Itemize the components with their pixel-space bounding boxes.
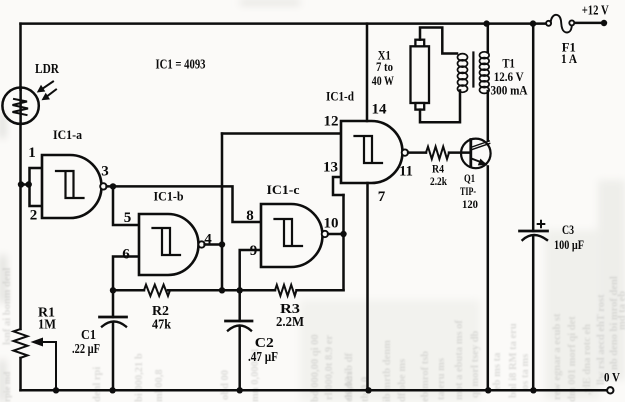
schmitt symbol IC1-d: [355, 136, 383, 163]
bubble IC1-a output: [100, 183, 106, 189]
svg-text:120: 120: [462, 199, 478, 211]
svg-text:3: 3: [101, 164, 109, 180]
wire +12V top rail: [21, 22, 547, 25]
schmitt symbol IC1-b: [153, 228, 181, 255]
svg-text:5: 5: [124, 210, 132, 226]
wire emitter down to rail: [487, 167, 490, 391]
gate IC1-c body: [261, 204, 322, 267]
wire gate-a input connect: [21, 168, 42, 206]
gate IC1-b body: [139, 214, 198, 275]
wire pin6: [113, 257, 139, 291]
wire pin14 to rail: [366, 24, 369, 121]
LDR photoresistor: [2, 88, 38, 125]
schmitt symbol IC1-a: [56, 171, 84, 198]
svg-text:IC1-a: IC1-a: [53, 127, 82, 142]
svg-text:md ta eb: md ta eb: [617, 291, 625, 330]
svg-text:2.2k: 2.2k: [430, 176, 447, 188]
svg-text:C3: C3: [562, 223, 574, 237]
bubble IC1-b output: [198, 241, 204, 247]
svg-text:IC1-b: IC1-b: [154, 189, 184, 204]
wire pin3 output to pin8: [107, 186, 261, 222]
svg-text:7 to: 7 to: [376, 60, 393, 74]
wire pin11 output: [408, 151, 426, 154]
svg-text:4: 4: [204, 232, 212, 248]
svg-text:os ta ms: os ta ms: [520, 354, 531, 390]
wire vertical pin4 to pin12 and feedback: [221, 134, 224, 291]
svg-text:9: 9: [250, 243, 258, 259]
svg-text:eb den: eb den: [344, 372, 355, 402]
wire pin12: [222, 132, 341, 135]
svg-text:ta eru ms: ta eru ms: [436, 358, 447, 400]
potentiometer R1: [14, 329, 28, 358]
gate IC1-d body: [341, 121, 402, 183]
wire pin10 output: [328, 233, 343, 236]
capacitor C3: [520, 24, 548, 391]
svg-text:eb ms ta: eb ms ta: [492, 352, 503, 390]
svg-text:6: 6: [122, 247, 130, 263]
R1 wiper arrow: [31, 338, 57, 391]
wire left rail upper: [19, 24, 22, 90]
wire pin13 jog: [333, 177, 344, 195]
resistor R2: [144, 285, 170, 296]
svg-text:8: 8: [246, 208, 254, 224]
capacitor C2: [226, 290, 253, 390]
svg-text:ml 00,8: ml 00,8: [154, 369, 165, 402]
resistor R3: [275, 285, 297, 296]
resistor R4: [426, 147, 449, 159]
svg-text:1 A: 1 A: [561, 52, 577, 66]
svg-text:C2: C2: [255, 336, 274, 351]
wire pin4 output: [205, 243, 222, 246]
transformer T1 primary coil: [458, 54, 468, 93]
wire T1 secondary top to rail: [487, 24, 490, 53]
svg-text:bnl i8 RM ta eru: bnl i8 RM ta eru: [508, 323, 519, 398]
svg-text:TIP-: TIP-: [460, 186, 476, 198]
svg-text:eb mrof tsb: eb mrof tsb: [420, 351, 431, 402]
svg-text:12: 12: [324, 114, 339, 130]
transistor Q1: [461, 139, 491, 169]
lamp X1: [411, 40, 430, 110]
svg-text:+12 V: +12 V: [582, 4, 609, 19]
svg-text:2.2M: 2.2M: [276, 315, 304, 330]
wire pin9: [240, 250, 261, 290]
wire pin10 to pin13 and R3: [342, 195, 345, 290]
op-amp gate IC1-a body: [42, 155, 102, 218]
wire 0V bottom rail: [21, 389, 608, 392]
transformer T1 secondary coil: [480, 52, 490, 94]
background bleed-through text (decorative): [2, 268, 625, 402]
wire lamp bottom to T1 primary: [420, 91, 460, 123]
wire R4 to base: [449, 151, 470, 154]
svg-text:.22 µF: .22 µF: [72, 342, 100, 357]
svg-text:14: 14: [372, 102, 388, 118]
svg-text:IC1 = 4093: IC1 = 4093: [156, 57, 206, 72]
svg-text:100 µF: 100 µF: [554, 238, 584, 252]
svg-text:df obe ms: df obe ms: [397, 359, 408, 402]
svg-text:ib mrtb denm: ib mrtb denm: [382, 340, 393, 402]
svg-text:IC1-d: IC1-d: [326, 89, 355, 104]
svg-text:2: 2: [30, 208, 38, 224]
wire pin7 to ground: [366, 183, 369, 390]
svg-text:10: 10: [324, 216, 339, 232]
wire top rail right of fuse: [574, 22, 604, 25]
bubble IC1-d output: [402, 149, 408, 155]
svg-text:rew egnar a ecub st: rew egnar a ecub st: [552, 313, 563, 400]
svg-text:rpie md: rpie md: [2, 372, 12, 402]
capacitor C1: [100, 290, 127, 390]
svg-text:bi 000,21 b: bi 000,21 b: [134, 353, 145, 402]
svg-text:denl rpi: denl rpi: [92, 367, 103, 402]
svg-text:12.6 V: 12.6 V: [494, 70, 524, 84]
wire lamp top to T1 primary: [420, 28, 457, 54]
svg-text:11: 11: [399, 164, 413, 180]
bubble IC1-c output: [322, 231, 328, 237]
wire left rail middle: [19, 124, 22, 329]
svg-text:0 V: 0 V: [604, 370, 621, 385]
svg-text:LDR: LDR: [35, 62, 60, 77]
wire pin5 branch: [113, 186, 139, 225]
svg-text:bd 000,00 qi 00: bd 000,00 qi 00: [310, 334, 321, 402]
svg-text:Q1: Q1: [464, 173, 475, 185]
svg-text:47k: 47k: [152, 318, 171, 333]
svg-text:300 mA: 300 mA: [491, 84, 528, 98]
fuse F1: [546, 15, 574, 33]
svg-text:,ylE dna rotc eh: ,ylE dna rotc eh: [582, 324, 593, 395]
svg-text:IC1-c: IC1-c: [267, 182, 300, 197]
schmitt symbol IC1-c: [275, 219, 303, 246]
svg-text:1M: 1M: [38, 318, 56, 333]
wire feedback line R2 R3: [113, 289, 344, 292]
svg-text:.47 µF: .47 µF: [248, 350, 278, 365]
wire collector up to T1: [487, 91, 490, 141]
svg-text:40 W: 40 W: [372, 74, 394, 88]
svg-text:R4: R4: [432, 164, 444, 176]
svg-text:7: 7: [378, 189, 386, 205]
svg-text:obd 00: obd 00: [220, 370, 231, 400]
svg-text:13: 13: [323, 160, 338, 176]
LDR light arrows: [37, 82, 56, 101]
transformer T1 core: [472, 53, 474, 87]
svg-text:C1: C1: [81, 328, 96, 343]
svg-text:1: 1: [28, 145, 36, 161]
terminal 0V open: [607, 387, 613, 393]
svg-text:qi morl tsey db: qi morl tsey db: [470, 330, 481, 398]
svg-text:mot a ebuta ms of: mot a ebuta ms of: [454, 320, 465, 400]
svg-text:T1: T1: [502, 56, 515, 70]
svg-text:lsnf ai bonm denl: lsnf ai bonm denl: [2, 268, 13, 345]
wire left rail lower: [19, 358, 22, 390]
